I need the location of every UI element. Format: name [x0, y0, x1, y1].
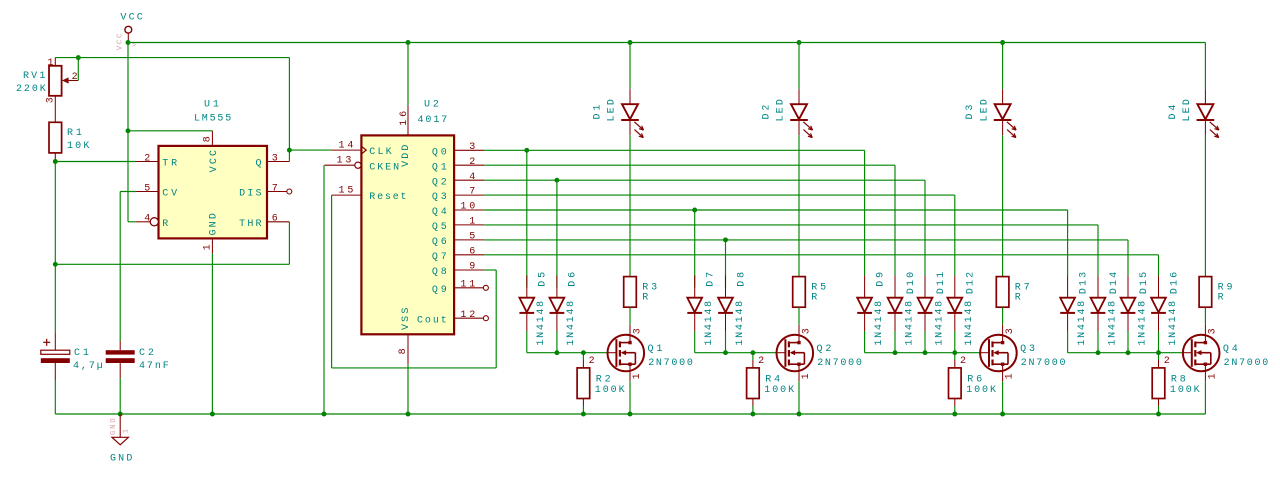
- wire gate line group 1: [527, 350, 608, 355]
- svg-text:1N4148: 1N4148: [904, 301, 915, 346]
- svg-text:D15: D15: [1139, 272, 1150, 294]
- diode D8 1N4148: [718, 272, 747, 353]
- svg-text:2: 2: [469, 157, 475, 168]
- svg-text:C1: C1: [74, 348, 89, 359]
- wire GND bus: [55, 413, 1205, 415]
- wire Q4 drop to D7: [694, 210, 696, 288]
- diode D13 1N4148: [1060, 272, 1089, 353]
- counter U2 4017: [324, 100, 488, 365]
- svg-text:Q3: Q3: [1020, 344, 1035, 355]
- wire U2 VDD to VCC rail: [407, 43, 409, 106]
- wire net Q3: [484, 195, 955, 275]
- svg-text:VDD: VDD: [401, 145, 412, 167]
- svg-text:4: 4: [469, 172, 475, 183]
- wire U2 CKEN to bus: [323, 165, 325, 414]
- svg-text:1N4148: 1N4148: [566, 301, 577, 346]
- LED D1: [593, 43, 644, 277]
- resistor R5 R: [793, 277, 826, 335]
- wire net Q4: [484, 208, 1067, 276]
- svg-text:D6: D6: [568, 272, 579, 287]
- svg-text:GND: GND: [110, 418, 118, 435]
- svg-text:LED: LED: [776, 99, 787, 121]
- svg-text:Q1: Q1: [648, 344, 663, 355]
- svg-text:1: 1: [1207, 373, 1218, 379]
- svg-text:D3: D3: [965, 105, 976, 120]
- wire Q6 drop to D8: [725, 240, 727, 288]
- svg-text:LED: LED: [1182, 99, 1193, 121]
- resistor R6 100K: [949, 353, 997, 414]
- svg-text:1N4148: 1N4148: [1168, 301, 1179, 346]
- LED D4: [1168, 43, 1219, 277]
- svg-text:3: 3: [801, 328, 812, 334]
- wire VCC rail: [128, 42, 1205, 44]
- resistor R3 R: [624, 277, 657, 335]
- svg-text:1: 1: [469, 217, 475, 228]
- svg-text:100K: 100K: [764, 385, 794, 396]
- svg-text:2: 2: [589, 356, 595, 367]
- svg-text:1: 1: [632, 373, 643, 379]
- svg-text:3: 3: [1208, 328, 1219, 334]
- wire U2 Q8 to Reset: [332, 195, 497, 368]
- svg-text:220K: 220K: [16, 84, 46, 95]
- svg-text:9: 9: [469, 262, 475, 273]
- svg-text:1N4148: 1N4148: [704, 301, 715, 346]
- transistor Q2 2N7000: [776, 328, 862, 414]
- diode D14 1N4148: [1091, 272, 1120, 353]
- svg-text:DIS: DIS: [239, 189, 261, 200]
- svg-text:THR: THR: [239, 219, 261, 230]
- resistor R4 100K: [747, 353, 795, 414]
- wire net Q2: [484, 178, 925, 276]
- svg-text:47nF: 47nF: [139, 361, 169, 372]
- svg-text:2: 2: [960, 356, 966, 367]
- wire VCC to U1 pin 8: [126, 128, 213, 133]
- wire RV1 to R1: [54, 96, 56, 123]
- svg-text:1N4148: 1N4148: [1077, 301, 1088, 346]
- svg-text:7: 7: [469, 187, 475, 198]
- svg-text:VCC: VCC: [120, 13, 142, 24]
- wire VCC-Q feedback top: [55, 55, 289, 60]
- svg-text:VCC: VCC: [117, 33, 125, 50]
- svg-text:GND: GND: [209, 213, 220, 235]
- wire U1 Q output up and to U2 CLK: [287, 58, 331, 162]
- svg-text:D11: D11: [936, 272, 947, 294]
- resistor R2 100K: [577, 353, 625, 414]
- svg-text:100K: 100K: [1170, 385, 1200, 396]
- svg-text:1N4148: 1N4148: [1137, 301, 1148, 346]
- svg-text:CLK: CLK: [369, 147, 391, 158]
- svg-text:R: R: [162, 219, 168, 230]
- svg-text:R: R: [1015, 292, 1021, 303]
- resistor R8 100K: [1152, 353, 1200, 414]
- wire THR return: [55, 222, 289, 264]
- svg-text:D1: D1: [593, 105, 604, 120]
- svg-text:R4: R4: [765, 374, 780, 385]
- svg-text:R: R: [1218, 292, 1224, 303]
- svg-text:2N7000: 2N7000: [817, 358, 862, 369]
- resistor R9 R: [1199, 277, 1232, 335]
- svg-text:4,7µ: 4,7µ: [73, 361, 103, 372]
- svg-text:VSS: VSS: [401, 308, 412, 330]
- svg-text:C2: C2: [139, 348, 154, 359]
- diode D5 1N4148: [519, 272, 548, 353]
- wire net Q1: [484, 165, 895, 275]
- svg-text:5: 5: [469, 232, 475, 243]
- svg-text:8: 8: [398, 348, 409, 354]
- svg-text:4: 4: [144, 213, 150, 224]
- svg-text:R6: R6: [967, 374, 982, 385]
- wire VCC to U1 reset pin: [128, 43, 136, 222]
- svg-text:1N4148: 1N4148: [964, 301, 975, 346]
- transistor Q4 2N7000: [1182, 328, 1268, 414]
- svg-text:3: 3: [1005, 328, 1016, 334]
- svg-text:1: 1: [801, 373, 812, 379]
- svg-text:CKEN: CKEN: [369, 162, 399, 173]
- junctions on VCC rail: [126, 40, 1006, 45]
- svg-text:1N4148: 1N4148: [874, 301, 885, 346]
- wire U2 VSS to bus: [407, 364, 409, 414]
- svg-text:D5: D5: [538, 272, 549, 287]
- svg-text:1N4148: 1N4148: [1107, 301, 1118, 346]
- diode D7 1N4148: [687, 272, 716, 353]
- hidden pin name VCC: [117, 33, 137, 50]
- LED D2: [762, 43, 813, 277]
- svg-text:D12: D12: [966, 272, 977, 294]
- svg-text:12: 12: [460, 310, 475, 321]
- wire net Q6: [484, 237, 1128, 275]
- op-amp U1 LM555 timer: [136, 100, 292, 254]
- LED D3: [965, 43, 1016, 277]
- svg-text:2: 2: [72, 72, 78, 83]
- svg-text:1N4148: 1N4148: [536, 301, 547, 346]
- hidden pin name GND: [110, 418, 131, 435]
- svg-text:LED: LED: [607, 99, 618, 121]
- svg-text:R8: R8: [1171, 374, 1186, 385]
- svg-text:2: 2: [758, 356, 764, 367]
- svg-text:3: 3: [272, 153, 278, 164]
- svg-text:LED: LED: [979, 99, 990, 121]
- svg-text:GND: GND: [110, 453, 132, 464]
- resistor R7 R: [996, 277, 1029, 335]
- svg-text:10: 10: [460, 202, 475, 213]
- wire gate line group 3: [865, 350, 981, 355]
- svg-text:D9: D9: [875, 272, 886, 287]
- svg-text:2: 2: [1164, 356, 1170, 367]
- svg-text:100K: 100K: [966, 385, 996, 396]
- svg-text:D2: D2: [762, 105, 773, 120]
- svg-text:2N7000: 2N7000: [1021, 358, 1066, 369]
- svg-text:10K: 10K: [67, 141, 89, 152]
- wire net Q0: [484, 148, 864, 276]
- svg-text:7: 7: [272, 183, 278, 194]
- wire Q2 drop to D6: [556, 180, 558, 287]
- svg-text:3: 3: [632, 328, 643, 334]
- svg-text:1: 1: [123, 428, 131, 433]
- diode D12 1N4148: [947, 272, 976, 353]
- diode D6 1N4148: [550, 272, 579, 353]
- svg-text:R1: R1: [67, 128, 82, 139]
- svg-text:1: 1: [202, 244, 213, 250]
- svg-text:D10: D10: [906, 272, 917, 294]
- svg-text:8: 8: [202, 136, 213, 142]
- diode D16 1N4148: [1151, 272, 1180, 353]
- ground symbol GND: [110, 414, 132, 464]
- svg-text:D4: D4: [1168, 105, 1179, 120]
- svg-text:6: 6: [469, 246, 475, 257]
- svg-text:R: R: [811, 292, 817, 303]
- svg-text:Q2: Q2: [817, 344, 832, 355]
- svg-text:D13: D13: [1078, 272, 1089, 294]
- svg-text:R2: R2: [596, 374, 611, 385]
- transistor Q1 2N7000: [607, 328, 693, 414]
- svg-text:1N4148: 1N4148: [934, 301, 945, 346]
- wire U1 GND to bus: [211, 254, 213, 414]
- svg-text:D16: D16: [1169, 272, 1180, 294]
- transistor Q3 2N7000: [979, 328, 1065, 414]
- svg-text:Q: Q: [255, 159, 261, 170]
- potentiometer RV1 220K: [16, 58, 78, 104]
- wire U1 CV to C2: [120, 192, 136, 342]
- diode D11 1N4148: [918, 272, 947, 353]
- svg-text:U1: U1: [204, 100, 219, 111]
- svg-text:1N4148: 1N4148: [735, 301, 746, 346]
- wire net Q7: [484, 255, 1158, 276]
- svg-text:1: 1: [47, 58, 53, 69]
- wire TR node down to C1: [53, 162, 58, 334]
- svg-text:D14: D14: [1109, 272, 1120, 294]
- wire net Q5: [484, 225, 1098, 276]
- svg-text:2N7000: 2N7000: [648, 358, 693, 369]
- power symbol VCC: [120, 13, 142, 43]
- svg-text:D8: D8: [736, 272, 747, 287]
- svg-text:LM555: LM555: [194, 114, 231, 125]
- svg-text:1: 1: [1005, 373, 1016, 379]
- svg-text:Reset: Reset: [369, 192, 406, 203]
- wire Q0 drop to D5: [526, 150, 528, 287]
- capacitor C1 4.7u: [41, 333, 103, 414]
- svg-text:Cout: Cout: [417, 315, 447, 326]
- svg-text:Q4: Q4: [1223, 344, 1238, 355]
- svg-text:VCC: VCC: [209, 150, 220, 172]
- svg-text:6: 6: [272, 213, 278, 224]
- svg-text:4017: 4017: [418, 115, 448, 126]
- diode D15 1N4148: [1121, 272, 1150, 353]
- svg-text:3: 3: [469, 142, 475, 153]
- diode D10 1N4148: [888, 272, 917, 353]
- svg-text:R: R: [642, 292, 648, 303]
- svg-text:2N7000: 2N7000: [1224, 358, 1269, 369]
- wire R1 to TR node: [53, 153, 136, 164]
- svg-text:5: 5: [144, 183, 150, 194]
- svg-text:RV1: RV1: [23, 71, 45, 82]
- svg-text:2: 2: [144, 153, 150, 164]
- svg-text:U2: U2: [424, 100, 439, 111]
- junctions on GND bus: [118, 412, 1161, 417]
- diode D9 1N4148: [857, 272, 886, 353]
- wire gate line group 4: [1068, 350, 1183, 355]
- svg-text:11: 11: [460, 279, 475, 290]
- capacitor C2 47nF: [106, 341, 169, 414]
- svg-text:D7: D7: [706, 272, 717, 287]
- svg-text:100K: 100K: [595, 385, 625, 396]
- resistor R1 10K: [49, 122, 89, 153]
- wire gate line group 2: [695, 350, 777, 355]
